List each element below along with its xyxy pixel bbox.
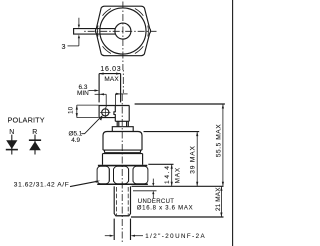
- svg-text:MAX: MAX: [104, 76, 119, 83]
- svg-text:39 MAX: 39 MAX: [189, 145, 196, 174]
- extension line body top (39): [144, 131, 200, 133]
- diode symbol N: [6, 135, 18, 155]
- body upper section: [103, 132, 142, 151]
- dimension 16.03 MAX: [99, 73, 121, 103]
- top view corner chamfer arcs: [97, 9, 148, 54]
- top view horizontal centerline: [84, 30, 156, 32]
- svg-text:31.62/31.42 A/F: 31.62/31.42 A/F: [14, 182, 70, 189]
- terminal hole: [100, 107, 110, 117]
- dimension 6.3 MIN ticks and arrows: [89, 89, 128, 107]
- svg-text:55.5 MAX: 55.5 MAX: [216, 124, 223, 157]
- body groove: [103, 150, 142, 153]
- body lower section: [103, 154, 143, 165]
- svg-text:1/2"-20UNF-2A: 1/2"-20UNF-2A: [145, 233, 206, 240]
- dimension 21 MAX: [220, 186, 222, 217]
- threaded stud: [114, 186, 130, 215]
- left facet pillow: [97, 166, 109, 183]
- dimension 39 MAX: [196, 132, 198, 187]
- side view vertical centerline: [121, 94, 123, 243]
- svg-text:14.4: 14.4: [164, 164, 171, 184]
- top view chamfer circle: [100, 8, 146, 54]
- dimension 3 arrows: [68, 18, 81, 46]
- extension line hex top (14.4): [148, 163, 173, 165]
- svg-text:POLARITY: POLARITY: [8, 115, 45, 124]
- svg-text:Ø16.8 x 3.6 MAX: Ø16.8 x 3.6 MAX: [137, 206, 194, 212]
- top view hex nut outline: [96, 6, 151, 56]
- hex nut (side view): [97, 166, 148, 185]
- svg-text:MIN: MIN: [77, 90, 89, 97]
- svg-text:10: 10: [68, 106, 75, 114]
- svg-text:16.03: 16.03: [100, 66, 121, 73]
- extension line hex bottom: [132, 185, 224, 187]
- undercut marks: [133, 179, 157, 199]
- stud thread hidden lines: [117, 187, 129, 215]
- svg-text:4.9: 4.9: [71, 137, 80, 144]
- flag terminal tab (side view): [99, 106, 129, 118]
- svg-text:MAX: MAX: [174, 167, 181, 183]
- right border line: [232, 0, 234, 246]
- top view center hole circle: [115, 23, 131, 39]
- svg-text:3: 3: [62, 42, 66, 51]
- extension line tab top (55.5): [135, 103, 225, 105]
- dimension 14.4 MAX: [171, 164, 173, 186]
- stud extension lines below: [113, 219, 115, 240]
- diode symbol R: [29, 135, 41, 155]
- A/F leader: [70, 181, 100, 187]
- hex corner columns: [108, 169, 110, 182]
- right facet pillow: [133, 166, 148, 183]
- collar block: [112, 127, 133, 132]
- top view vertical centerline: [122, 2, 124, 71]
- svg-text:21 MAX: 21 MAX: [215, 187, 222, 211]
- top view terminal tab edge lines: [74, 29, 115, 34]
- terminal post (side view): [114, 106, 129, 122]
- hole leader Ø5.1/4.9: [81, 115, 103, 134]
- dimension 55.5 MAX: [222, 104, 224, 186]
- crimp waist: [117, 121, 128, 126]
- center facet pillow: [114, 166, 129, 183]
- svg-text:UNDERCUT: UNDERCUT: [138, 199, 174, 205]
- dimension 1/2-20UNF-2A: [105, 235, 143, 237]
- dimension 10: [76, 105, 99, 118]
- extension line stud end: [131, 216, 224, 218]
